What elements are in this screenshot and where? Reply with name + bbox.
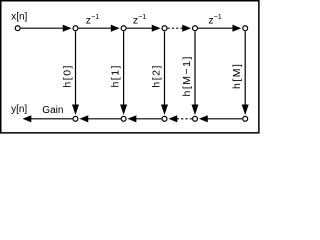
svg-text:Gain: Gain [42, 105, 63, 116]
wire h[M] tap down [244, 31, 246, 105]
wire tapM-1 to tapM [198, 27, 233, 29]
wire sum1 to sum0 [88, 118, 121, 120]
wire h[1] tap down [123, 31, 125, 105]
wire sum2 to sum1 [136, 118, 162, 120]
svg-text:h[M]: h[M] [231, 63, 243, 89]
wire tap1 to tap2 [127, 27, 153, 29]
node input x[n] [15, 26, 20, 31]
border frame [1, 1, 259, 133]
wire h[2] tap down [164, 31, 166, 105]
svg-text:−1: −1 [138, 12, 146, 21]
svg-text:−1: −1 [214, 12, 222, 21]
svg-text:−1: −1 [91, 12, 99, 21]
node sum tapM-1 bottom [193, 116, 198, 121]
wire tap2 to tapM-1 dashed ellipsis [168, 27, 183, 29]
svg-text:h[M−1]: h[M−1] [181, 55, 193, 96]
svg-text:h[2]: h[2] [150, 64, 162, 88]
node sum tap2 bottom [162, 116, 167, 121]
wire sumM to sumM-1 [207, 118, 242, 120]
svg-text:h[1]: h[1] [109, 64, 121, 88]
svg-text:h[0]: h[0] [61, 64, 73, 88]
node sum tapM bottom [243, 116, 248, 121]
node sum0 bottom Gain [73, 116, 78, 121]
wire h[M-1] tap down [194, 31, 196, 105]
node sum tap1 bottom [121, 116, 126, 121]
node tap2 top [162, 26, 167, 31]
wire sumM-1 to sum2 dashed ellipsis [177, 118, 192, 120]
wire input to tap0 [21, 27, 64, 29]
node tapM-1 top [193, 26, 198, 31]
node tapM top [243, 26, 248, 31]
svg-text:y[n]: y[n] [11, 104, 27, 115]
node tap1 top [121, 26, 126, 31]
wire output to y[n] [31, 118, 73, 120]
wire tap0 to tap1 [79, 27, 112, 29]
svg-text:x[n]: x[n] [11, 11, 27, 22]
node tap0 top [73, 26, 78, 31]
wire h[0] tap down [75, 31, 77, 105]
